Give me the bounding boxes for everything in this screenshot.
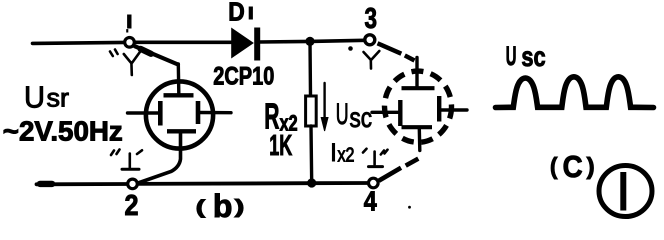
svg-text:sc: sc	[350, 102, 373, 133]
svg-text:1K: 1K	[269, 130, 292, 162]
wire diode cathode to node X	[259, 40, 310, 44]
U2 right lead	[441, 108, 467, 111]
terminal 3 (open circle)	[365, 35, 375, 45]
wire node1 to diode anode	[134, 40, 232, 44]
pin label 1	[126, 15, 129, 31]
svg-text:3: 3	[365, 3, 378, 35]
label "⊥" at node 4	[363, 149, 388, 167]
svg-text:(: (	[196, 198, 206, 219]
label D1	[228, 0, 251, 27]
svg-text:2CP10: 2CP10	[213, 63, 274, 91]
wire terminal2 to bottom node	[137, 181, 308, 185]
figure label (b)	[196, 188, 245, 224]
output waveform trace (rectified half-sine pulses)	[496, 77, 654, 108]
U2 top lead	[415, 58, 418, 87]
wire top rail left segment	[33, 42, 126, 43]
label "Y" at node 3	[348, 46, 379, 68]
voltage arrow for USC across RX2	[321, 83, 328, 131]
source label USR	[3, 80, 123, 147]
U1 bottom stem wire to terminal 2	[138, 131, 181, 183]
stray mark dot	[408, 206, 411, 209]
wire node X down to resistor RX2	[308, 41, 312, 96]
svg-text:C: C	[563, 149, 583, 184]
chopper U1 envelope (solid circle)	[146, 81, 213, 148]
U1 bottom plate bar	[167, 129, 196, 133]
label USC (across resistor)	[336, 98, 372, 133]
svg-text:4: 4	[364, 186, 378, 217]
label "⊥" at node 2	[111, 150, 142, 170]
resistor RX2 body	[306, 96, 317, 126]
svg-text:sc: sc	[521, 41, 545, 72]
U2 top plate bar	[402, 86, 435, 90]
U2 bottom stem lead	[418, 129, 422, 151]
label "Y" at node 1	[110, 50, 141, 76]
terminal 4 (open circle)	[369, 178, 379, 188]
U1 right plate bar	[196, 101, 201, 124]
svg-text:2: 2	[125, 190, 139, 222]
figure label (C)	[550, 149, 595, 184]
label RX2	[264, 96, 297, 137]
chopper U2 envelope (dashed circle)	[385, 71, 452, 142]
dashed wire terminal 3 to chopper U2	[378, 43, 415, 60]
current label IX2	[330, 139, 354, 167]
wire resistor RX2 to bottom node	[309, 126, 313, 183]
svg-text:D: D	[228, 0, 245, 27]
svg-text:x2: x2	[338, 145, 355, 167]
U1 left lead	[128, 111, 159, 114]
svg-text:b: b	[213, 188, 233, 224]
svg-text:U: U	[336, 98, 349, 131]
U1 top lead	[177, 64, 181, 93]
node X junction dot (top)	[305, 37, 314, 46]
wire node X to terminal 3	[310, 40, 365, 41]
wire bottom node to terminal 4	[308, 181, 368, 185]
svg-text:U: U	[24, 80, 45, 115]
terminal 2 (open circle)	[128, 179, 138, 189]
svg-text:(: (	[550, 153, 558, 179]
svg-text:): )	[587, 153, 595, 179]
svg-text:~2V.50Hz: ~2V.50Hz	[3, 116, 123, 147]
U2 bottom plate bar	[402, 125, 433, 129]
wire switch arm from terminal 1 to chopper U1 top lead	[135, 46, 178, 64]
U2 right plate bar	[437, 96, 441, 122]
U1 left plate bar	[158, 101, 163, 126]
diode D1	[232, 28, 258, 61]
dashed wire terminal 4 to chopper U2	[379, 159, 419, 181]
U2 left lead	[372, 111, 398, 114]
U1 right lead	[198, 111, 231, 115]
bottom node junction dot	[307, 178, 316, 187]
svg-text:sr: sr	[47, 83, 70, 113]
U1 top plate bar	[164, 93, 194, 97]
U2 left plate bar	[398, 100, 402, 126]
output waveform USC label	[506, 41, 546, 72]
svg-text:): )	[235, 197, 245, 218]
terminal 1 (open circle)	[125, 38, 135, 48]
wire bottom rail left segment	[37, 182, 129, 186]
circled marker 1	[599, 166, 652, 217]
svg-text:U: U	[506, 41, 517, 71]
svg-text:I: I	[330, 139, 337, 167]
